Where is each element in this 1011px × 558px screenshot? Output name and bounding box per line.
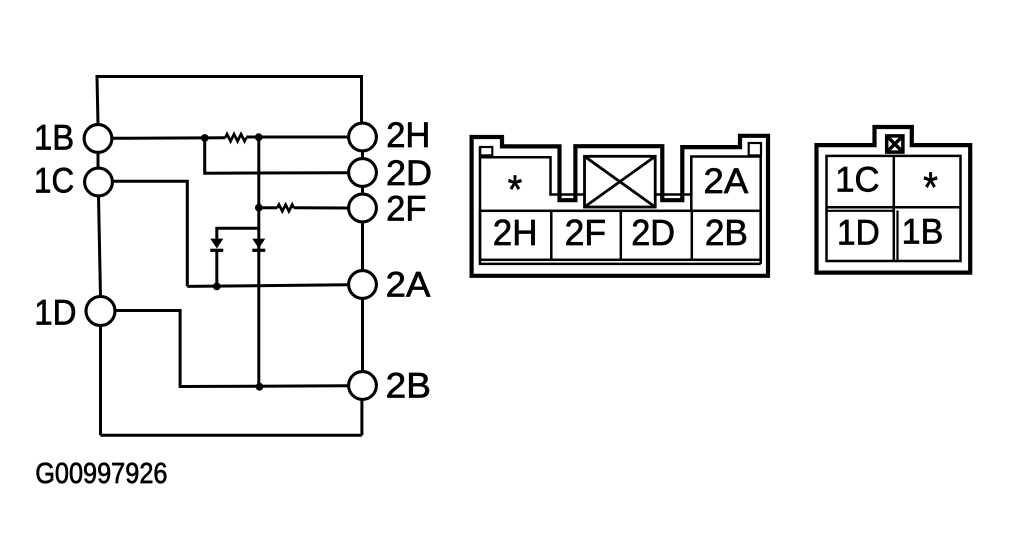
diode D1 bbox=[210, 239, 223, 249]
wire 2F line right part bbox=[294, 206, 348, 209]
connector C200 index notch right bbox=[749, 143, 761, 155]
connector C100 keyway crossed square bbox=[887, 136, 903, 152]
connector C200 outer contour bbox=[472, 136, 768, 276]
svg-text:1C: 1C bbox=[34, 162, 74, 201]
terminal 2F bbox=[349, 194, 377, 222]
wire 2A line bbox=[187, 285, 348, 287]
svg-text:2H: 2H bbox=[386, 116, 430, 155]
svg-text:2D: 2D bbox=[386, 154, 432, 193]
connector C200 divider 2F/2D bbox=[620, 211, 623, 260]
node J4 junction dot bbox=[213, 283, 221, 291]
svg-text:1B: 1B bbox=[902, 213, 944, 252]
terminal 2H bbox=[349, 123, 377, 151]
wire link 1C to 1D bbox=[99, 197, 101, 297]
svg-text:1D: 1D bbox=[837, 213, 880, 252]
svg-text:1B: 1B bbox=[34, 119, 74, 158]
wire link 2A to 2B bbox=[361, 299, 364, 371]
connector C200 inner contour left bbox=[479, 147, 482, 264]
wire link 2D to 2F bbox=[361, 187, 364, 194]
wire junction J1 to 2D bbox=[205, 138, 348, 173]
connector C200 divider 2H/2F bbox=[550, 211, 553, 260]
terminal 2A bbox=[349, 271, 377, 299]
connector C200 index notch left bbox=[480, 147, 492, 155]
node J1 junction dot bbox=[201, 134, 209, 142]
wire 1B to 2H (left part) bbox=[112, 136, 225, 140]
wire top loop from 1B to 2H bbox=[97, 77, 362, 125]
connector C200 inner contour bottom bbox=[479, 263, 761, 266]
diode D2 bbox=[252, 239, 265, 249]
node J3 junction dot bbox=[255, 204, 263, 212]
wire 1C to 2A line bbox=[113, 181, 188, 286]
svg-text:1D: 1D bbox=[34, 294, 76, 333]
wire bottom loop bbox=[101, 434, 362, 437]
wire 1D down to bottom loop bbox=[99, 326, 102, 436]
wire diode D1 branch down to node J4 bbox=[215, 251, 218, 286]
terminal 1D bbox=[86, 297, 115, 326]
svg-text:*: * bbox=[508, 167, 523, 212]
resistor R1 bbox=[225, 134, 246, 141]
wire 2B to bottom loop bbox=[360, 400, 363, 435]
wire link 2H to 2D bbox=[361, 152, 364, 159]
svg-text:2A: 2A bbox=[386, 265, 431, 304]
node J5 junction dot bbox=[256, 383, 264, 391]
connector C100 grid horizontal bbox=[827, 206, 960, 209]
connector C200 blocked cavity X cell bbox=[585, 156, 656, 207]
svg-text:G00997926: G00997926 bbox=[35, 458, 167, 490]
resistor R2 bbox=[277, 205, 293, 212]
svg-text:2B: 2B bbox=[705, 212, 748, 253]
connector C200 dip connector to 2A cell bbox=[655, 157, 761, 195]
svg-text:2D: 2D bbox=[631, 212, 675, 253]
connector C100 grid horizontal double bbox=[827, 210, 894, 212]
svg-text:2A: 2A bbox=[704, 162, 749, 201]
connector C200 cavity * (top left cell) bbox=[480, 157, 585, 194]
connector C200 bottom row of cells bbox=[480, 211, 761, 260]
terminal 2B bbox=[349, 372, 377, 400]
svg-text:2H: 2H bbox=[493, 212, 538, 253]
wire 2F line left part bbox=[259, 206, 278, 209]
wire link 1B to 1C bbox=[97, 153, 100, 168]
connector C100 outer contour bbox=[817, 127, 971, 273]
connector C100 grid vertical bbox=[893, 156, 896, 261]
svg-text:*: * bbox=[923, 164, 938, 212]
connector C200 inner contour right bbox=[759, 155, 762, 264]
svg-text:1C: 1C bbox=[835, 161, 879, 200]
svg-text:2B: 2B bbox=[386, 366, 431, 405]
wire 1D to 2B bbox=[115, 311, 349, 387]
connector C100 inner contour bbox=[827, 156, 961, 261]
connector C200 divider 2D/2B bbox=[691, 211, 694, 260]
wire vertical bus J2 down to 2B line bbox=[257, 137, 260, 387]
wire link 2F to 2A bbox=[361, 223, 364, 271]
terminal 2D bbox=[349, 159, 377, 187]
wire 1B to 2H (right part) bbox=[246, 136, 348, 139]
terminal 1B bbox=[84, 125, 112, 153]
node J2 junction dot bbox=[255, 133, 263, 141]
svg-text:2F: 2F bbox=[386, 190, 426, 229]
wire diode bridge top bbox=[217, 228, 259, 239]
connector C200 2A cell left edge bbox=[690, 157, 693, 211]
svg-text:2F: 2F bbox=[565, 212, 606, 253]
terminal 1C bbox=[85, 168, 113, 196]
connector C100 grid vertical double (bottom) bbox=[896, 211, 898, 261]
